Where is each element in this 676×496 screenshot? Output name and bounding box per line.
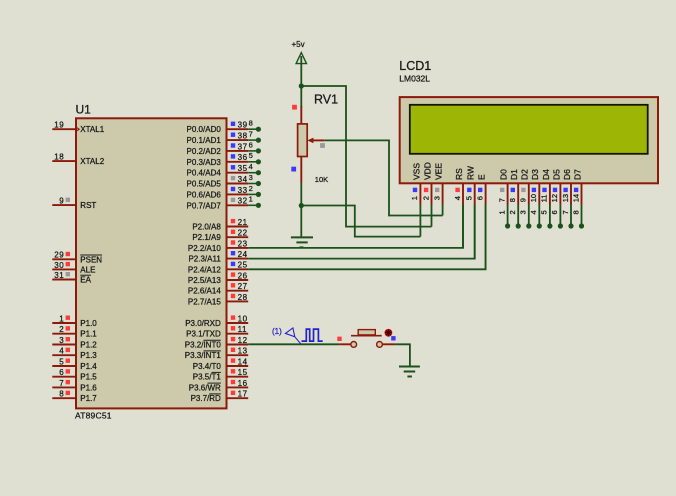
pin 14 D7 of LCD1 xyxy=(581,183,583,205)
svg-text:ALE: ALE xyxy=(80,265,95,274)
pin 2 P1.1 of U1 xyxy=(52,333,76,335)
svg-text:37: 37 xyxy=(238,142,248,151)
pin 39 P0.0/AD0 of U1 (net label 8) xyxy=(227,128,249,130)
svg-text:14: 14 xyxy=(571,194,580,202)
logic probe marker xyxy=(285,328,301,344)
svg-text:24: 24 xyxy=(238,250,248,259)
pin 28 P2.7/A15 of U1 xyxy=(227,300,249,302)
pin 21 P2.0/A8 of U1 xyxy=(227,226,249,228)
svg-text:2: 2 xyxy=(59,325,64,334)
svg-text:4: 4 xyxy=(249,162,253,171)
pin 16 P3.6/WR of U1 xyxy=(227,386,249,388)
pin 4 P1.3 of U1 xyxy=(52,354,76,356)
svg-text:P3.5/T1: P3.5/T1 xyxy=(193,373,222,382)
LCD screen area xyxy=(410,105,648,154)
svg-text:11: 11 xyxy=(540,195,549,203)
svg-text:17: 17 xyxy=(238,390,248,399)
svg-text:+5v: +5v xyxy=(292,40,305,49)
svg-text:7: 7 xyxy=(249,130,253,139)
pin 1 VSS of LCD1 xyxy=(419,183,421,205)
svg-text:31: 31 xyxy=(54,271,64,280)
wire RW net (U1 P2.3 to LCD RW) xyxy=(248,205,475,259)
svg-text:LM032L: LM032L xyxy=(399,74,430,84)
pin 27 P2.6/A14 of U1 xyxy=(227,290,249,292)
pin 3 P1.2 of U1 xyxy=(52,344,76,346)
wire RS net (U1 P2.2 to LCD RS) xyxy=(248,205,463,248)
svg-text:10K: 10K xyxy=(315,175,328,184)
svg-text:P3.1/TXD: P3.1/TXD xyxy=(186,330,221,339)
svg-text:D2: D2 xyxy=(520,169,530,180)
pin 29 PSEN of U1 xyxy=(52,258,76,260)
pin 32 P0.7/AD7 of U1 (net label 1) xyxy=(227,204,249,206)
svg-text:21: 21 xyxy=(238,218,248,227)
svg-text:4: 4 xyxy=(59,347,64,356)
svg-text:2: 2 xyxy=(421,196,430,200)
pin 24 P2.3/A11 of U1 xyxy=(227,258,249,260)
pin 30 ALE of U1 xyxy=(52,268,76,270)
svg-text:7: 7 xyxy=(59,379,64,388)
RV1 pin-1 marker square xyxy=(292,105,297,110)
svg-text:39: 39 xyxy=(238,121,248,130)
svg-text:8: 8 xyxy=(571,210,580,214)
pin 15 P3.5/T1 of U1 xyxy=(227,376,249,378)
svg-text:P2.2/A10: P2.2/A10 xyxy=(188,244,221,253)
pin 7 D0 of LCD1 xyxy=(507,183,509,205)
svg-text:P1.3: P1.3 xyxy=(80,351,97,360)
svg-text:P0.3/AD3: P0.3/AD3 xyxy=(187,158,222,167)
svg-text:P1.5: P1.5 xyxy=(80,373,97,382)
potentiometer RV1 body and wiper xyxy=(300,106,302,125)
wire E net (U1 P2.4 to LCD E) xyxy=(248,205,485,270)
push button xyxy=(339,343,351,345)
button marker square (left) xyxy=(337,337,341,341)
pin 3 VEE of LCD1 xyxy=(442,183,444,205)
svg-text:P3.4/T0: P3.4/T0 xyxy=(193,362,222,371)
pin 14 P3.4/T0 of U1 xyxy=(227,365,249,367)
pin 11 D4 of LCD1 xyxy=(549,183,551,205)
svg-text:9: 9 xyxy=(519,198,528,202)
pin 38 P0.1/AD1 of U1 (net label 7) xyxy=(227,139,249,141)
svg-text:P0.7/AD7: P0.7/AD7 xyxy=(187,201,222,210)
svg-text:3: 3 xyxy=(432,196,441,200)
wire +5v to RV1 top xyxy=(300,86,302,107)
svg-text:D1: D1 xyxy=(509,169,519,180)
svg-text:VSS: VSS xyxy=(411,163,421,180)
pin 13 D6 of LCD1 xyxy=(570,183,572,205)
pin 25 P2.4/A12 of U1 xyxy=(227,268,249,270)
svg-text:8: 8 xyxy=(508,198,517,202)
svg-text:P0.6/AD6: P0.6/AD6 xyxy=(187,190,222,199)
svg-text:D3: D3 xyxy=(530,169,540,180)
wire RV1 bottom to junction xyxy=(300,183,302,206)
svg-text:5: 5 xyxy=(540,210,549,214)
RV1 wiper marker square xyxy=(320,143,325,148)
junction node at RV1 bottom xyxy=(299,203,304,208)
svg-text:8: 8 xyxy=(59,390,64,399)
svg-text:22: 22 xyxy=(238,229,248,238)
svg-text:26: 26 xyxy=(238,271,248,280)
svg-text:P2.1/A9: P2.1/A9 xyxy=(192,233,221,242)
svg-text:P3.6/WR: P3.6/WR xyxy=(189,383,221,392)
svg-text:5: 5 xyxy=(59,357,64,366)
svg-text:29: 29 xyxy=(54,251,64,260)
svg-text:15: 15 xyxy=(238,368,248,377)
svg-text:5: 5 xyxy=(465,196,474,200)
svg-text:VEE: VEE xyxy=(434,163,444,180)
svg-text:1: 1 xyxy=(249,195,253,204)
wire junction to ground xyxy=(300,206,302,238)
pin 12 D5 of LCD1 xyxy=(559,183,561,205)
svg-text:P2.3/A11: P2.3/A11 xyxy=(188,255,221,264)
pin 2 VDD of LCD1 xyxy=(431,183,433,205)
svg-text:EA: EA xyxy=(80,276,91,285)
svg-text:19: 19 xyxy=(54,121,64,130)
svg-text:12: 12 xyxy=(550,194,559,202)
svg-text:13: 13 xyxy=(238,347,248,356)
svg-text:16: 16 xyxy=(238,379,248,388)
ground symbol below RV1 xyxy=(291,236,313,238)
svg-text:P1.4: P1.4 xyxy=(80,362,97,371)
svg-text:VDD: VDD xyxy=(422,162,432,180)
pin 6 E of LCD1 xyxy=(485,183,487,205)
RV1 pin-3 marker square xyxy=(291,167,296,172)
pin 34 P0.5/AD5 of U1 (net label 3) xyxy=(227,183,249,185)
svg-text:14: 14 xyxy=(238,357,248,366)
pin 13 P3.3/INT1 of U1 xyxy=(227,354,249,356)
pin 23 P2.2/A10 of U1 xyxy=(227,247,249,249)
svg-text:LCD1: LCD1 xyxy=(399,59,431,73)
pin 19 XTAL1 of U1 xyxy=(52,128,76,130)
svg-text:P0.1/AD1: P0.1/AD1 xyxy=(187,136,222,145)
svg-text:6: 6 xyxy=(59,368,64,377)
svg-text:1: 1 xyxy=(59,314,64,323)
svg-text:AT89C51: AT89C51 xyxy=(75,410,112,420)
svg-text:30: 30 xyxy=(54,261,64,270)
svg-text:P2.6/A14: P2.6/A14 xyxy=(188,287,221,296)
ground symbol below button xyxy=(399,366,420,368)
svg-text:3: 3 xyxy=(519,210,528,214)
pin 8 D1 of LCD1 xyxy=(517,183,519,205)
svg-text:2: 2 xyxy=(249,184,253,193)
svg-text:38: 38 xyxy=(238,132,248,141)
pin 18 XTAL2 of U1 xyxy=(52,160,76,162)
svg-text:P1.6: P1.6 xyxy=(80,383,97,392)
wire VSS net (ground junction to LCD VSS) xyxy=(301,206,420,237)
button marker square (right) xyxy=(391,336,395,340)
svg-text:5: 5 xyxy=(249,151,253,160)
pin 11 P3.1/TXD of U1 xyxy=(227,333,249,335)
pin 5 P1.4 of U1 xyxy=(52,365,76,367)
pin 6 P1.5 of U1 xyxy=(52,376,76,378)
pin 37 P0.2/AD2 of U1 (net label 6) xyxy=(227,150,249,152)
svg-text:8: 8 xyxy=(249,119,253,128)
svg-text:33: 33 xyxy=(238,186,248,195)
svg-text:P1.2: P1.2 xyxy=(80,341,97,350)
svg-text:P3.7/RD: P3.7/RD xyxy=(191,394,221,403)
svg-text:3: 3 xyxy=(249,173,253,182)
svg-text:P1.0: P1.0 xyxy=(80,319,97,328)
pin 26 P2.5/A13 of U1 xyxy=(227,279,249,281)
svg-text:23: 23 xyxy=(238,239,248,248)
svg-text:18: 18 xyxy=(54,153,64,162)
pin 31 EA of U1 xyxy=(52,279,76,281)
svg-text:10: 10 xyxy=(529,194,538,202)
svg-text:6: 6 xyxy=(475,196,484,200)
pin 9 D2 of LCD1 xyxy=(528,183,530,205)
pin 22 P2.1/A9 of U1 xyxy=(227,236,249,238)
svg-text:P2.4/A12: P2.4/A12 xyxy=(188,265,221,274)
pin 33 P0.6/AD6 of U1 (net label 2) xyxy=(227,193,249,195)
svg-text:28: 28 xyxy=(238,293,248,302)
svg-text:25: 25 xyxy=(238,261,248,270)
svg-text:RS: RS xyxy=(454,168,464,180)
svg-text:12: 12 xyxy=(238,336,248,345)
svg-text:4: 4 xyxy=(453,196,462,200)
svg-text:2: 2 xyxy=(508,210,517,214)
svg-text:3: 3 xyxy=(59,336,64,345)
svg-text:XTAL2: XTAL2 xyxy=(80,157,104,166)
svg-text:P2.0/A8: P2.0/A8 xyxy=(192,223,221,232)
svg-text:U1: U1 xyxy=(76,103,92,117)
svg-text:32: 32 xyxy=(238,197,248,206)
svg-text:P0.0/AD0: P0.0/AD0 xyxy=(187,125,222,134)
svg-text:1: 1 xyxy=(497,210,506,214)
svg-text:13: 13 xyxy=(561,194,570,202)
svg-text:P1.1: P1.1 xyxy=(80,330,97,339)
pin 7 P1.6 of U1 xyxy=(52,386,76,388)
svg-text:1: 1 xyxy=(410,196,419,200)
svg-text:RW: RW xyxy=(466,166,476,180)
pin 5 RW of LCD1 xyxy=(474,183,476,205)
svg-text:D7: D7 xyxy=(572,169,582,180)
svg-text:6: 6 xyxy=(550,210,559,214)
svg-text:P3.3/INT1: P3.3/INT1 xyxy=(185,351,222,360)
button actuator icon xyxy=(385,329,393,337)
svg-text:34: 34 xyxy=(238,175,248,184)
IC U1 body (AT89C51) xyxy=(76,118,227,408)
svg-text:6: 6 xyxy=(249,140,253,149)
svg-text:P0.2/AD2: P0.2/AD2 xyxy=(187,147,222,156)
wire INT0 net (U1 P3.2 to button) xyxy=(248,343,339,345)
svg-text:D5: D5 xyxy=(551,169,561,180)
svg-text:4: 4 xyxy=(529,210,538,214)
svg-text:P3.2/INT0: P3.2/INT0 xyxy=(185,341,222,350)
LCD display LCD1 body xyxy=(400,97,658,183)
pin 8 P1.7 of U1 xyxy=(52,397,76,399)
svg-text:27: 27 xyxy=(238,282,248,291)
pin 12 P3.2/INT0 of U1 xyxy=(227,344,249,346)
svg-text:P2.5/A13: P2.5/A13 xyxy=(188,276,221,285)
svg-text:36: 36 xyxy=(238,153,248,162)
svg-text:11: 11 xyxy=(238,325,248,334)
pin 4 RS of LCD1 xyxy=(462,183,464,205)
junction node at +5v rail xyxy=(299,83,304,88)
svg-text:10: 10 xyxy=(238,314,248,323)
pin 17 P3.7/RD of U1 xyxy=(227,397,249,399)
svg-text:P1.7: P1.7 xyxy=(80,394,97,403)
svg-text:E: E xyxy=(477,174,487,180)
svg-text:P0.4/AD4: P0.4/AD4 xyxy=(187,169,222,178)
pulse waveform glyph xyxy=(302,329,323,341)
pin 35 P0.4/AD4 of U1 (net label 4) xyxy=(227,172,249,174)
pin 10 P3.0/RXD of U1 xyxy=(227,322,249,324)
svg-text:RV1: RV1 xyxy=(314,93,338,107)
wire VEE net (RV1 wiper to LCD VEE) xyxy=(324,140,442,215)
wire VDD net (+5v junction to LCD VDD) xyxy=(301,86,431,227)
pin 9 RST of U1 xyxy=(52,204,76,206)
svg-text:35: 35 xyxy=(238,164,248,173)
svg-text:(1): (1) xyxy=(272,327,282,336)
svg-text:RST: RST xyxy=(80,201,96,210)
svg-text:XTAL1: XTAL1 xyxy=(80,125,104,134)
svg-text:D0: D0 xyxy=(499,169,509,180)
svg-text:P0.5/AD5: P0.5/AD5 xyxy=(187,180,222,189)
svg-text:7: 7 xyxy=(561,210,570,214)
svg-text:P3.0/RXD: P3.0/RXD xyxy=(185,319,221,328)
svg-text:PSEN: PSEN xyxy=(80,255,102,264)
pin 1 P1.0 of U1 xyxy=(52,322,76,324)
svg-text:D4: D4 xyxy=(541,169,551,180)
svg-text:7: 7 xyxy=(497,198,506,202)
pin 10 D3 of LCD1 xyxy=(538,183,540,205)
pin 36 P0.3/AD3 of U1 (net label 5) xyxy=(227,161,249,163)
svg-text:P2.7/A15: P2.7/A15 xyxy=(188,297,221,306)
svg-text:9: 9 xyxy=(59,197,64,206)
svg-text:D6: D6 xyxy=(562,169,572,180)
wire button to ground xyxy=(395,344,410,366)
